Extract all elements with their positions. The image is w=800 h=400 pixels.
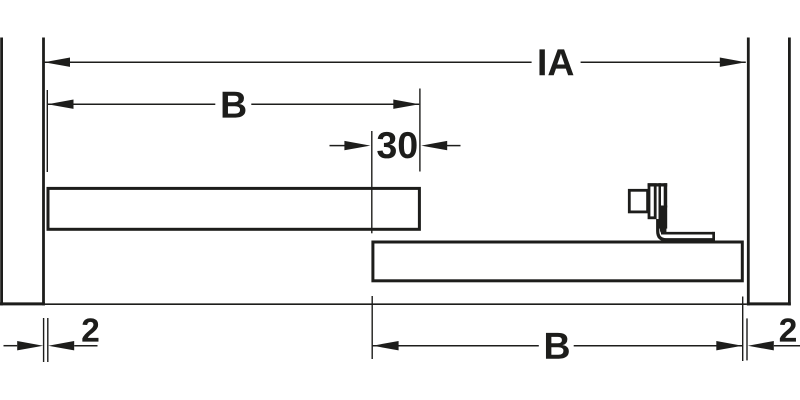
suspension clip vertical bar <box>659 183 662 226</box>
dimension B top line left segment <box>48 103 216 105</box>
dimension 2 left inner shaft <box>74 345 97 347</box>
dimension 30 right shaft <box>447 145 461 147</box>
dimension IA right arrowhead <box>720 58 746 67</box>
dimension B bottom right arrowhead <box>716 341 742 350</box>
label 2 left <box>82 318 98 341</box>
dimension 2 right shaft <box>774 345 800 347</box>
extension line bottom wall right <box>746 318 748 360</box>
extension line overlap 30 left <box>371 131 373 233</box>
right wall panel outer line <box>788 38 791 306</box>
left wall panel outer line <box>0 38 3 306</box>
dimension 2 right arrowhead <box>748 341 774 350</box>
dimension IA line right segment <box>581 61 746 63</box>
dimension B top right arrowhead <box>393 100 419 109</box>
label B bottom <box>546 333 569 359</box>
extension line bottom wall left <box>43 318 45 362</box>
dimension IA left arrowhead <box>44 58 70 67</box>
dimension 30 left shaft <box>330 145 346 147</box>
suspension clip top cap <box>648 183 668 186</box>
label IA <box>539 49 573 75</box>
extension line bottom door left <box>47 318 49 362</box>
dimension 2 left outer shaft <box>4 345 18 347</box>
upper sliding door panel <box>48 188 419 229</box>
lower sliding door panel <box>373 242 742 281</box>
floor line <box>45 303 747 305</box>
suspension clip solid block <box>659 206 668 229</box>
suspension clip right band <box>664 183 668 207</box>
suspension clip step <box>661 227 666 235</box>
dimension 30 right arrowhead <box>421 141 447 150</box>
right wall panel bottom edge <box>747 302 791 305</box>
dimension B top line right segment <box>251 103 419 105</box>
dimension B bottom left arrowhead <box>373 341 399 350</box>
suspension clip hanger plate <box>649 185 655 218</box>
suspension bracket end cap <box>712 232 715 242</box>
label 30 <box>377 132 416 159</box>
left wall panel inner line <box>42 38 45 306</box>
label B top <box>223 92 246 118</box>
dimension 30 left arrowhead <box>344 141 370 150</box>
left wall panel bottom edge <box>0 302 45 305</box>
label 2 right <box>780 318 796 341</box>
dimension IA line left segment <box>44 61 532 63</box>
dimension 2 left outer arrowhead <box>17 341 43 350</box>
dimension 2 left inner arrowhead <box>48 341 74 350</box>
extension line bottom lower door left edge <box>371 296 373 359</box>
dimension B top left arrowhead <box>48 100 74 109</box>
suspension bracket outer curve <box>658 219 714 240</box>
extension line door right edge <box>419 89 421 172</box>
dimension B bottom line right segment <box>574 345 743 347</box>
right wall panel inner line <box>747 38 750 306</box>
dimension B bottom line left segment <box>373 345 539 347</box>
suspension bolt head <box>629 190 647 212</box>
extension line bottom lower door right edge <box>742 297 744 362</box>
suspension bracket top edge <box>661 226 713 233</box>
extension line door left edge <box>46 90 48 172</box>
